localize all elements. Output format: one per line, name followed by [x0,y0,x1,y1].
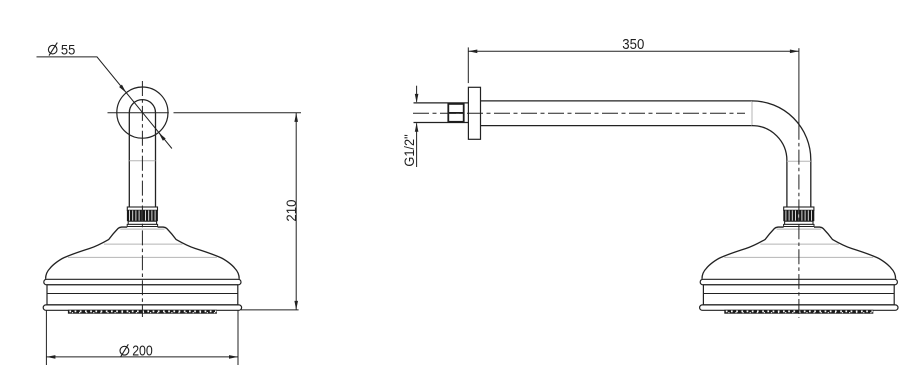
pipe right edge [155,113,157,207]
dimension G1/2 lower line [416,123,418,167]
dimension G1/2 arrow down [415,94,419,103]
dimension 210 arrow up [294,113,298,122]
nipple tube [414,103,469,123]
dimension Ø200 arrow left [46,355,55,359]
dimension 210 top extension line [174,112,302,114]
dimension 350 right extension line [798,48,800,125]
svg-text:210: 210 [283,199,299,221]
dimension Ø200 arrow right [229,355,238,359]
dimension Ø200 right extension line [237,311,239,366]
vertical pipe centerline [798,125,800,318]
elbow inner arc [752,126,787,208]
vertical centerline front view [141,81,143,317]
dimension Ø55 arrow upper [119,85,126,93]
dimension Ø55 label diameter symbol [48,43,57,56]
dimension 350 arrow right [790,50,799,54]
dimension 350 line [468,50,799,52]
dimension 350 arrow left [468,50,477,54]
horizontal centerline front view [108,112,169,114]
shower head side view [700,207,898,314]
arm end seam [751,101,753,126]
dimension Ø200 label diameter symbol [120,344,129,357]
svg-text:350: 350 [622,37,644,53]
svg-text:200: 200 [132,343,153,359]
wall flange circle [117,87,168,138]
dimension 210 line [295,113,297,310]
pipe seam [129,160,155,162]
arm bottom edge [481,125,753,127]
arm centerline [413,112,745,114]
dimension Ø55 leader line [37,57,172,149]
elbow outer arc [752,101,811,208]
dimension 210 arrow down [294,301,298,310]
wall flange side view [468,87,480,139]
hex section [448,104,463,122]
dimension Ø55 arrow lower [159,133,166,141]
pipe cap arc [129,100,155,113]
svg-text:55: 55 [61,43,75,59]
vertical pipe seam [787,160,811,162]
dimension 350 left extension line [467,47,469,83]
dimension G1/2 arrow up [415,123,419,132]
dimension Ø200 left extension line [45,311,47,366]
dimension Ø200 line [46,356,238,358]
shower head front view [43,207,241,314]
dimension 210 bottom extension line [241,309,299,311]
svg-text:G1/2": G1/2" [401,134,417,166]
pipe left edge [128,113,130,207]
dimension G1/2 upper line [416,86,418,102]
arm top edge [481,100,753,102]
